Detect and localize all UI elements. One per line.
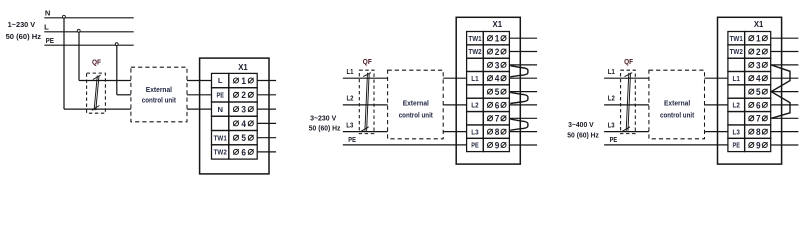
breaker bottom contact tick left: [92, 106, 100, 111]
svg-text:PE: PE: [610, 137, 618, 144]
wire stub terminal 7 right (middle X1): [509, 117, 537, 119]
terminal row 9 (PE) of X1 middle: [467, 138, 484, 151]
wire stub terminal 6 right (middle X1): [509, 104, 537, 106]
terminal row 2 (PE) of X1 left: [212, 88, 229, 102]
wire L2 to control unit (middle): [343, 104, 388, 106]
svg-text:L3: L3: [608, 122, 615, 129]
terminal row 5 (TW1) of X1 left: [212, 131, 229, 145]
svg-text:L2: L2: [347, 96, 354, 103]
terminal block X1 left: [200, 58, 269, 174]
svg-text:TW2: TW2: [730, 47, 743, 56]
terminal row 6 (L2) of X1 right: [728, 98, 745, 111]
svg-text:TW1: TW1: [730, 34, 744, 43]
terminal screw symbols and pin number 3 (X1 right): [749, 62, 754, 67]
svg-text:L: L: [218, 76, 223, 85]
terminal screw symbols and pin number 9 (X1 right): [749, 143, 754, 148]
terminal row 6 (TW2) of X1 left: [212, 145, 229, 159]
terminal row 8 (L3) of X1 middle: [467, 125, 484, 138]
terminal row 1 (L) of X1 left: [212, 73, 229, 87]
terminal screw symbols and pin number 7 (X1 middle): [488, 116, 493, 121]
terminal screw symbols and pin number 8 (X1 right): [749, 129, 754, 134]
svg-text:X1: X1: [754, 20, 764, 29]
breaker bottom contact tick middle: [361, 127, 369, 132]
terminal row 9 (PE) of X1 right: [728, 138, 745, 151]
terminal screw symbols and pin number 9 (X1 middle): [488, 143, 493, 148]
wire control unit to X1 terminal 1: [187, 80, 212, 82]
terminal row 1 (TW1) of X1 middle: [467, 32, 484, 45]
svg-text:1~230 V: 1~230 V: [8, 20, 36, 29]
svg-text:PE: PE: [348, 137, 356, 144]
wire stub terminal 2 right (right X1): [771, 51, 799, 53]
wire L1 to control unit (right): [604, 77, 649, 79]
heating element loop terminals 5-6 (middle): [510, 92, 528, 103]
svg-text:3: 3: [495, 60, 500, 71]
external control unit right: dashed box: [649, 70, 705, 139]
breaker top contact tick left: [93, 75, 101, 80]
svg-text:5: 5: [756, 87, 761, 98]
wire control unit to X1 terminal 8 (middle): [443, 131, 466, 133]
wire stub terminal 9 right (right X1): [771, 144, 799, 146]
wire N drop: [63, 18, 65, 109]
terminal screw symbols and pin number 2 (X1 left): [234, 92, 239, 97]
wire stub terminal 7 right (right X1): [771, 117, 799, 119]
terminal screw symbols and pin number 4 (X1 left): [234, 121, 239, 126]
svg-text:N: N: [45, 8, 50, 17]
svg-text:8: 8: [495, 127, 500, 138]
svg-text:L1: L1: [733, 74, 741, 83]
wire stub terminal 3 right (left X1): [257, 108, 276, 110]
heating element loop terminals 7-8 (middle): [510, 119, 528, 130]
junction node on N bus: [62, 15, 65, 18]
wire L drop: [78, 32, 80, 81]
wire control unit to X1 terminal 4 (middle): [443, 77, 466, 79]
terminal screw symbols and pin number 5 (X1 right): [749, 89, 754, 94]
wire N to control unit: [64, 108, 131, 110]
svg-text:2: 2: [241, 90, 246, 101]
terminal block X1 middle: [456, 17, 520, 164]
wire stub terminal 1 right (right X1): [771, 37, 799, 39]
terminal screw symbols and pin number 1 (X1 right): [749, 36, 754, 41]
svg-text:2: 2: [756, 47, 761, 58]
junction node on L bus: [77, 29, 80, 32]
svg-text:7: 7: [756, 114, 761, 125]
wire stub terminal 3 right (middle X1): [509, 64, 537, 66]
wire control unit to X1 terminal 6 (right): [705, 104, 728, 106]
svg-text:5: 5: [241, 133, 246, 144]
wire L1 to control unit (middle): [343, 77, 388, 79]
wire L3 to control unit (middle): [343, 131, 388, 133]
terminal screw symbols and pin number 6 (X1 right): [749, 102, 754, 107]
wire PE to X1 terminal 9 (right): [604, 144, 728, 146]
svg-text:L3: L3: [346, 122, 353, 129]
star-point link wire terminals 3-5-7 (right): [771, 65, 790, 118]
breaker blade (double line) right: [626, 73, 629, 131]
svg-text:External: External: [664, 99, 690, 108]
svg-text:L2: L2: [471, 101, 478, 110]
breaker bottom contact tick right: [622, 127, 630, 132]
wire stub terminal 4 right (right X1): [771, 77, 799, 79]
terminal row 4 (L1) of X1 middle: [467, 72, 484, 85]
wire stub terminal 8 right (middle X1): [509, 131, 537, 133]
svg-text:4: 4: [495, 74, 500, 85]
svg-text:8: 8: [756, 127, 761, 138]
wire control unit to X1 terminal 2: [187, 94, 212, 96]
terminal row 1 (TW1) of X1 right: [728, 32, 745, 45]
svg-text:TW2: TW2: [214, 148, 227, 157]
svg-text:QF: QF: [363, 57, 372, 66]
svg-text:L: L: [44, 22, 49, 31]
heating element loop terminals 3-4 (middle): [510, 66, 528, 77]
svg-text:L1: L1: [347, 69, 354, 76]
wire control unit to X1 terminal 3: [187, 108, 212, 110]
svg-text:External: External: [146, 85, 172, 94]
terminal screw symbols and pin number 4 (X1 right): [749, 76, 754, 81]
svg-text:L1: L1: [608, 69, 615, 76]
terminal screw symbols and pin number 2 (X1 right): [749, 49, 754, 54]
terminal row 6 (L2) of X1 middle: [467, 98, 484, 111]
wire PE to control unit: [117, 94, 131, 96]
wire control unit to X1 terminal 8 (right): [705, 131, 728, 133]
terminal row 3 (blank) of X1 middle: [467, 58, 484, 71]
svg-text:50 (60) Hz: 50 (60) Hz: [567, 130, 599, 139]
wire L bus: [44, 31, 133, 33]
svg-text:2: 2: [495, 47, 500, 58]
terminal row 2 (TW2) of X1 middle: [467, 45, 484, 58]
svg-text:control unit: control unit: [660, 111, 695, 120]
svg-text:PE: PE: [471, 141, 478, 150]
svg-text:PE: PE: [217, 91, 224, 100]
wire stub terminal 1 right (middle X1): [509, 37, 537, 39]
wire stub terminal 4 right (middle X1): [509, 77, 537, 79]
terminal row 8 (L3) of X1 right: [728, 125, 745, 138]
svg-text:QF: QF: [92, 57, 101, 66]
terminal row 3 (N) of X1 left: [212, 102, 229, 116]
circuit breaker QF (left): dashed enclosure: [87, 73, 106, 113]
svg-text:50 (60) Hz: 50 (60) Hz: [309, 124, 341, 133]
svg-text:X1: X1: [493, 20, 503, 29]
breaker blade (double line) middle: [365, 73, 368, 131]
svg-text:X1: X1: [238, 63, 248, 72]
wire stub terminal 4 right (left X1): [257, 122, 276, 124]
svg-text:External: External: [403, 99, 429, 108]
terminal screw symbols and pin number 1 (X1 middle): [488, 36, 493, 41]
svg-text:9: 9: [756, 140, 761, 151]
svg-text:4: 4: [241, 119, 246, 130]
wire L to control unit: [79, 80, 131, 82]
junction node on PE bus: [115, 43, 118, 46]
terminal row 3 (blank) of X1 right: [728, 58, 745, 71]
wire PE bus: [44, 44, 133, 46]
breaker top contact tick middle: [363, 73, 371, 77]
svg-text:L3: L3: [733, 127, 740, 136]
svg-text:4: 4: [756, 74, 761, 85]
terminal screw symbols and pin number 3 (X1 left): [234, 107, 239, 112]
svg-text:1: 1: [241, 76, 246, 87]
wire stub terminal 5 right (left X1): [257, 137, 276, 139]
wire control unit to X1 terminal 4 (right): [705, 77, 728, 79]
terminal screw symbols and pin number 6 (X1 left): [234, 149, 239, 154]
svg-text:6: 6: [241, 147, 246, 158]
wire stub terminal 8 right (right X1): [771, 131, 799, 133]
terminal row 7 (blank) of X1 right: [728, 112, 745, 125]
svg-text:TW2: TW2: [468, 47, 481, 56]
wire stub terminal 9 right (middle X1): [509, 144, 537, 146]
svg-text:6: 6: [495, 100, 500, 111]
terminal row 5 (blank) of X1 middle: [467, 85, 484, 98]
wire stub terminal 1 right (left X1): [257, 80, 276, 82]
svg-text:control unit: control unit: [142, 95, 177, 104]
svg-text:5: 5: [495, 87, 500, 98]
svg-text:N: N: [217, 105, 222, 114]
svg-text:QF: QF: [624, 57, 633, 66]
svg-text:3~230 V: 3~230 V: [310, 113, 336, 122]
svg-text:3: 3: [241, 105, 246, 116]
wire stub terminal 2 right (left X1): [257, 94, 276, 96]
wire PE to X1 terminal 9 (middle): [343, 144, 467, 146]
terminal row 4 (L1) of X1 right: [728, 72, 745, 85]
wire stub terminal 2 right (middle X1): [509, 51, 537, 53]
svg-text:PE: PE: [46, 36, 54, 45]
circuit breaker QF (middle): dashed enclosure: [359, 70, 374, 133]
terminal row 2 (TW2) of X1 right: [728, 45, 745, 58]
wire stub terminal 6 right (right X1): [771, 104, 799, 106]
svg-text:L1: L1: [471, 74, 479, 83]
terminal screw symbols and pin number 6 (X1 middle): [488, 102, 493, 107]
terminal screw symbols and pin number 7 (X1 right): [749, 116, 754, 121]
wire stub terminal 6 right (left X1): [257, 151, 276, 153]
terminal block X1 right: [718, 17, 782, 164]
breaker top contact tick right: [625, 73, 633, 77]
svg-text:L2: L2: [608, 96, 615, 103]
wire stub terminal 5 right (right X1): [771, 91, 799, 93]
terminal screw symbols and pin number 4 (X1 middle): [488, 76, 493, 81]
terminal row 5 (blank) of X1 right: [728, 85, 745, 98]
wire stub terminal 5 right (middle X1): [509, 91, 537, 93]
svg-text:TW1: TW1: [468, 34, 482, 43]
breaker blade (double line) left: [94, 76, 97, 111]
circuit breaker QF (right): dashed enclosure: [621, 70, 636, 133]
wire control unit to X1 terminal 6 (middle): [443, 104, 466, 106]
terminal screw symbols and pin number 1 (X1 left): [234, 78, 239, 83]
svg-text:3: 3: [756, 60, 761, 71]
svg-text:9: 9: [495, 140, 500, 151]
svg-text:1: 1: [495, 34, 500, 45]
svg-text:TW1: TW1: [214, 133, 228, 142]
wire L2 to control unit (right): [604, 104, 649, 106]
terminal row 4 (blank) of X1 left: [212, 116, 229, 130]
svg-text:L3: L3: [471, 127, 478, 136]
wire stub terminal 3 right (right X1): [771, 64, 799, 66]
svg-text:3~400 V: 3~400 V: [568, 120, 594, 129]
svg-text:PE: PE: [733, 141, 740, 150]
svg-text:L2: L2: [733, 101, 740, 110]
terminal screw symbols and pin number 5 (X1 left): [234, 135, 239, 140]
terminal screw symbols and pin number 5 (X1 middle): [488, 89, 493, 94]
terminal screw symbols and pin number 2 (X1 middle): [488, 49, 493, 54]
svg-text:50 (60) Hz: 50 (60) Hz: [6, 32, 42, 41]
terminal screw symbols and pin number 8 (X1 middle): [488, 129, 493, 134]
svg-text:control unit: control unit: [399, 111, 434, 120]
terminal row 7 (blank) of X1 middle: [467, 112, 484, 125]
terminal screw symbols and pin number 3 (X1 middle): [488, 62, 493, 67]
wire N bus: [44, 17, 133, 19]
external control unit middle: dashed box: [388, 70, 444, 139]
wire L3 to control unit (right): [604, 131, 649, 133]
wire PE drop: [116, 45, 118, 95]
svg-text:7: 7: [495, 114, 500, 125]
external control unit left: dashed box: [131, 67, 187, 122]
svg-text:6: 6: [756, 100, 761, 111]
svg-text:1: 1: [756, 34, 761, 45]
